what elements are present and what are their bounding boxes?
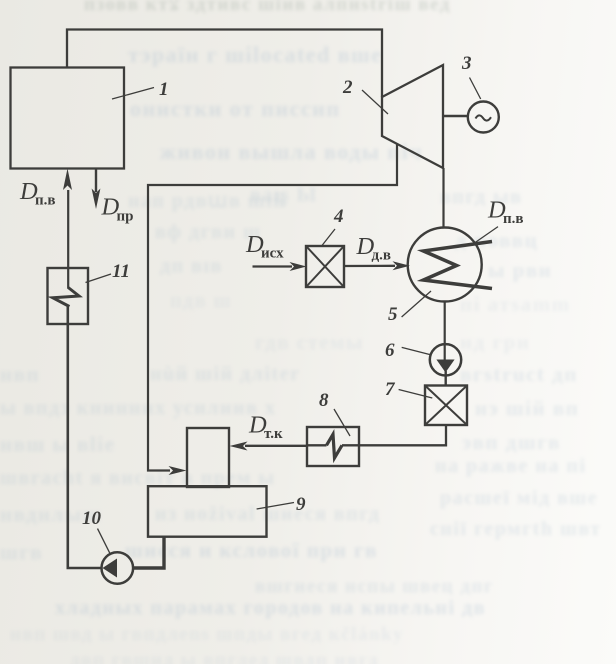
pump 10: [102, 552, 134, 584]
heat load box 9: [148, 486, 267, 537]
wire main steam boiler to turbine: [67, 30, 382, 98]
svg-text:1: 1: [159, 79, 169, 100]
ghost bleed-through text: [84, 0, 451, 16]
svg-text:7: 7: [385, 379, 396, 400]
wire box 9 to pump 10: [134, 537, 164, 568]
feedwater arrow into boiler: [63, 169, 72, 191]
wire pump 10 to economizer 11: [68, 307, 102, 569]
deaerator 5: [408, 228, 492, 302]
treated water arrow D d.v: [344, 261, 410, 270]
heat consumer upper box: [187, 428, 229, 487]
wire extraction steam to heat load: [148, 144, 397, 471]
turbine 2: [382, 65, 443, 168]
label 1: [112, 79, 169, 100]
arrow into heat box: [169, 466, 187, 475]
svg-text:9: 9: [296, 494, 306, 515]
label 7: [385, 379, 432, 400]
wire unit 7 down and left to heater 8: [360, 425, 447, 445]
wire pump 6 to unit 7: [445, 371, 447, 386]
svg-text:4: 4: [333, 206, 344, 227]
boiler 1: [11, 68, 125, 169]
svg-text:11: 11: [112, 261, 130, 282]
label 4: [322, 206, 344, 246]
generator 3: [468, 102, 499, 133]
wire return D t.k with arrow: [230, 442, 308, 451]
blowdown wire D pr: [92, 169, 101, 210]
economizer 11: [48, 190, 89, 324]
label D iskh: [245, 231, 284, 262]
label 3: [461, 53, 481, 99]
wire turbine-generator shaft: [443, 115, 468, 117]
water treatment 4 crossed box: [306, 246, 344, 287]
label D t.k: [248, 411, 283, 442]
svg-text:5: 5: [388, 304, 398, 325]
wire turbine exhaust to deaerator: [442, 168, 444, 228]
svg-text:6: 6: [385, 340, 395, 361]
label D p.v (deaerator feed out): [473, 197, 524, 245]
pump 6: [430, 344, 461, 375]
label 8: [319, 390, 350, 436]
label 2: [342, 77, 388, 114]
heater 8: [307, 427, 360, 466]
svg-text:т.к: т.к: [264, 426, 283, 442]
svg-text:д.в: д.в: [372, 248, 391, 264]
label D d.v: [356, 233, 391, 264]
label 5: [388, 291, 431, 325]
label 9: [257, 494, 306, 515]
svg-text:пр: пр: [117, 209, 134, 225]
wire deaerator to pump 6: [444, 302, 446, 361]
label 10: [82, 508, 110, 554]
svg-text:8: 8: [319, 390, 329, 411]
svg-text:10: 10: [82, 508, 102, 529]
label D p.v feedwater: [19, 178, 56, 209]
unit 7 crossed box: [425, 386, 467, 426]
raw water arrow D iskh: [253, 262, 307, 271]
svg-text:п.в: п.в: [35, 193, 56, 209]
svg-text:3: 3: [461, 53, 472, 74]
svg-text:исх: исх: [261, 246, 284, 262]
label 6: [385, 340, 431, 361]
svg-text:2: 2: [342, 77, 353, 98]
label D pr: [101, 194, 134, 225]
svg-text:п.в: п.в: [503, 211, 524, 227]
label 11: [86, 261, 130, 283]
